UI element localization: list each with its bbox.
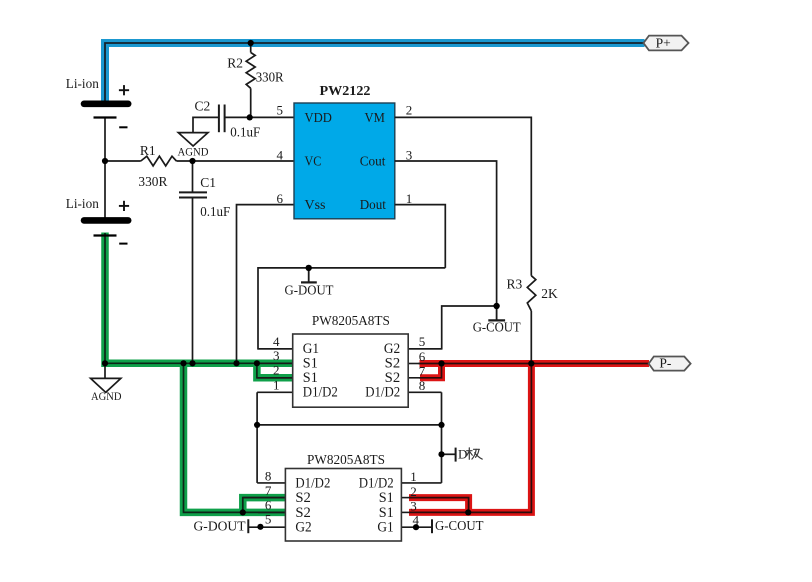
pin stub U2 pin1 <box>257 391 293 393</box>
wire Dout pin1 down <box>395 205 446 268</box>
junction D1/D2 tie left <box>254 422 260 428</box>
capacitor C2 <box>193 105 294 133</box>
svg-text:D1/D2: D1/D2 <box>295 475 330 491</box>
svg-text:AGND: AGND <box>178 146 209 158</box>
svg-text:C1: C1 <box>200 175 216 190</box>
svg-text:1: 1 <box>273 377 280 392</box>
junction R1 left battery mid <box>102 158 108 164</box>
svg-text:D1/D2: D1/D2 <box>359 475 394 491</box>
pin stub U3 pin5 <box>248 526 285 528</box>
wire P- net highlight main to connector <box>420 360 650 367</box>
net tick G-COUT (upper) <box>496 306 498 320</box>
svg-text:D: D <box>458 447 467 462</box>
svg-text:R1: R1 <box>140 143 156 158</box>
svg-text:0.1uF: 0.1uF <box>200 204 230 219</box>
svg-text:6: 6 <box>419 349 426 364</box>
svg-text:2: 2 <box>410 484 417 499</box>
wire P+ net core battery1 plus to connector <box>105 43 645 101</box>
resistor R2 <box>246 43 255 117</box>
wire P- net core branch U2 pin7 <box>419 364 442 378</box>
wire B- net highlight branch to U2 pin2 S1 <box>257 363 293 378</box>
pin stub U3 pin2 <box>401 497 410 499</box>
wire P- net highlight branch U2 pin7 S2 <box>420 364 442 378</box>
svg-text:VC: VC <box>305 154 322 169</box>
junction G-COUT (lower) <box>413 524 419 530</box>
pin stub U2 pin6 <box>408 363 420 365</box>
wire D1/D2 tie right vertical U2 pin8 to U3 pin1 <box>441 392 443 483</box>
resistor R1 <box>105 156 294 166</box>
ground AGND (lower) <box>104 363 106 378</box>
net tick G-DOUT (lower) <box>247 519 249 533</box>
svg-text:2: 2 <box>406 102 413 117</box>
junction S1 branch on green <box>254 360 260 366</box>
svg-text:1: 1 <box>410 469 417 484</box>
wire P+ net highlight battery1 plus to connector <box>105 43 645 102</box>
wire P- net highlight branch U3 pin2 S1 <box>409 498 469 513</box>
svg-text:R2: R2 <box>227 56 243 71</box>
pin stub U2 pin4 <box>258 348 293 350</box>
junction Vss on green <box>233 360 239 366</box>
svg-text:AGND: AGND <box>91 391 122 403</box>
junction AGND on green <box>102 360 108 366</box>
svg-text:G-DOUT: G-DOUT <box>285 282 335 297</box>
svg-text:PW2122: PW2122 <box>320 84 371 99</box>
ground AGND (upper) <box>178 133 208 146</box>
connector P- <box>649 357 691 371</box>
junction D pole <box>438 451 444 457</box>
svg-text:8: 8 <box>265 468 272 483</box>
connector P+ <box>644 36 689 51</box>
pin stub U3 pin1 <box>401 482 441 484</box>
wire B- net core battery2 minus to U2 pin3 <box>105 233 293 363</box>
svg-text:G-COUT: G-COUT <box>473 319 522 334</box>
junction G-DOUT (lower) <box>257 524 263 530</box>
svg-text:5: 5 <box>265 512 272 527</box>
svg-text:C2: C2 <box>195 99 211 114</box>
junction R2 top on blue bus <box>248 40 254 46</box>
net tick D pole <box>442 453 456 455</box>
svg-text:G2: G2 <box>295 520 311 536</box>
wire P- net core branch U3 pin2 <box>409 498 469 513</box>
junction D1/D2 tie right <box>438 422 444 428</box>
wire VM pin2 to R3 <box>395 117 532 275</box>
svg-text:PW8205A8TS: PW8205A8TS <box>307 453 385 468</box>
svg-text:S2: S2 <box>295 505 311 521</box>
svg-text:0.1uF: 0.1uF <box>230 125 260 140</box>
wire Cout pin3 down <box>395 161 497 306</box>
svg-text:G-COUT: G-COUT <box>435 518 484 533</box>
wire G-DOUT net to pin4 of U2 <box>258 268 445 349</box>
pin stub U3 pin7 <box>243 497 286 499</box>
battery BT2 Li-ion <box>84 220 128 235</box>
svg-text:7: 7 <box>265 483 272 498</box>
junction S2 branch on red <box>438 360 444 366</box>
svg-text:2: 2 <box>273 363 280 378</box>
svg-text:8: 8 <box>419 378 426 393</box>
junction G-COUT tick (upper) <box>493 303 499 309</box>
pin stub U2 pin8 <box>408 391 441 393</box>
svg-text:G-DOUT: G-DOUT <box>194 518 247 533</box>
IC U3 PW8205A8TS (lower) <box>243 483 442 527</box>
svg-text:Vss: Vss <box>305 197 326 212</box>
wire B- net core down to U3 pin6 <box>184 363 286 512</box>
pin stub U3 pin8 <box>257 482 285 484</box>
svg-text:S2: S2 <box>295 490 311 506</box>
svg-text:3: 3 <box>273 348 280 363</box>
junction R3 bottom on red <box>528 360 534 366</box>
junction green at U3 pin7 branch <box>240 509 246 515</box>
svg-text:5: 5 <box>277 102 284 117</box>
svg-text:D1/D2: D1/D2 <box>303 385 338 401</box>
pin stub U3 pin4 <box>401 526 432 528</box>
svg-text:5: 5 <box>419 334 426 349</box>
wire P- net core main to connector <box>419 363 650 365</box>
wire B- net core branch to U3 pin7 <box>243 498 286 513</box>
svg-text:7: 7 <box>419 363 426 378</box>
resistor R3 <box>527 276 536 364</box>
svg-text:Li-ion: Li-ion <box>66 76 99 91</box>
svg-text:S1: S1 <box>379 490 394 506</box>
wire P- net core down to U3 pin3 <box>409 364 531 513</box>
junction C1 bottom on green <box>189 360 195 366</box>
pin stub U3 pin3 <box>401 511 410 513</box>
net tick G-DOUT (upper) <box>308 268 310 282</box>
svg-text:PW8205A8TS: PW8205A8TS <box>312 314 390 329</box>
junction green vertical <box>180 360 186 366</box>
battery BT1 Li-ion <box>84 104 128 218</box>
svg-text:Cout: Cout <box>360 154 386 169</box>
pin stub U2 pin3 <box>257 362 293 364</box>
junction C1 top pin4 line <box>189 158 195 164</box>
svg-text:P-: P- <box>659 355 672 370</box>
wire D1/D2 tie horizontal <box>257 424 441 426</box>
pin stub U3 pin6 <box>258 511 285 513</box>
capacitor C1 <box>179 161 207 363</box>
wire Vss pin6 <box>237 205 294 364</box>
svg-text:330R: 330R <box>138 174 167 189</box>
svg-text:330R: 330R <box>256 70 284 85</box>
svg-text:Li-ion: Li-ion <box>66 196 99 211</box>
svg-text:Dout: Dout <box>360 197 386 212</box>
wire B- net highlight battery2 minus to U2 pin3 S1 <box>105 233 293 364</box>
svg-text:3: 3 <box>410 498 417 513</box>
svg-text:VDD: VDD <box>305 110 332 125</box>
pin stub U2 pin2 <box>257 377 293 379</box>
svg-text:S1: S1 <box>379 505 394 521</box>
wire D1/D2 tie left vertical U2 pin1 to U3 pin8 <box>256 392 258 483</box>
svg-text:D1/D2: D1/D2 <box>365 385 400 401</box>
svg-text:4: 4 <box>273 334 280 349</box>
wire B- net highlight branch to U3 pin7 S2 <box>243 498 286 513</box>
svg-text:VM: VM <box>365 110 385 125</box>
svg-text:R3: R3 <box>507 276 523 291</box>
svg-text:4: 4 <box>277 148 284 163</box>
wire G-COUT net to pin5 of U2 <box>408 306 496 349</box>
junction R2 bottom pin5 line <box>247 114 253 120</box>
svg-text:2K: 2K <box>541 286 558 301</box>
junction red at U3 pin2 branch <box>465 509 471 515</box>
net tick G-COUT (lower) <box>431 519 433 533</box>
IC U2 PW8205A8TS (upper) <box>257 349 442 393</box>
pin stub U2 pin5 <box>408 348 442 350</box>
wire B- net highlight down to U3 pin6 S2 <box>184 363 286 512</box>
wire B- net core branch to U2 pin2 <box>257 363 293 378</box>
svg-text:6: 6 <box>265 498 272 513</box>
wire P- net highlight down to U3 pin3 S1 <box>409 360 531 512</box>
junction G-DOUT tick (upper) <box>306 265 312 271</box>
pin stub U2 pin7 <box>408 377 420 379</box>
svg-text:6: 6 <box>277 191 284 206</box>
svg-text:P+: P+ <box>656 35 671 50</box>
svg-text:G1: G1 <box>377 520 393 536</box>
IC U1 PW2122 <box>294 103 395 219</box>
